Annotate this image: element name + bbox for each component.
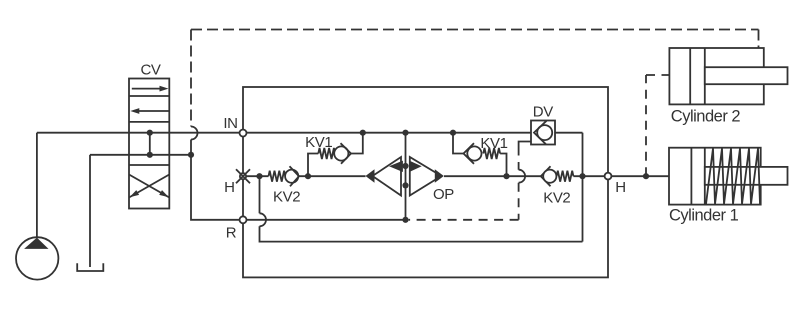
svg-text:R: R — [226, 224, 237, 241]
svg-text:KV2: KV2 — [543, 189, 570, 206]
svg-text:KV2: KV2 — [273, 189, 300, 206]
svg-text:IN: IN — [223, 115, 237, 132]
svg-text:H: H — [224, 179, 234, 196]
svg-text:Cylinder 1: Cylinder 1 — [669, 206, 739, 224]
svg-text:OP: OP — [433, 186, 454, 203]
svg-text:H: H — [615, 179, 625, 196]
svg-text:KV1: KV1 — [480, 135, 507, 152]
svg-text:KV1: KV1 — [305, 134, 332, 151]
svg-text:CV: CV — [140, 62, 160, 79]
svg-text:Cylinder 2: Cylinder 2 — [671, 107, 741, 125]
svg-text:DV: DV — [533, 104, 553, 121]
